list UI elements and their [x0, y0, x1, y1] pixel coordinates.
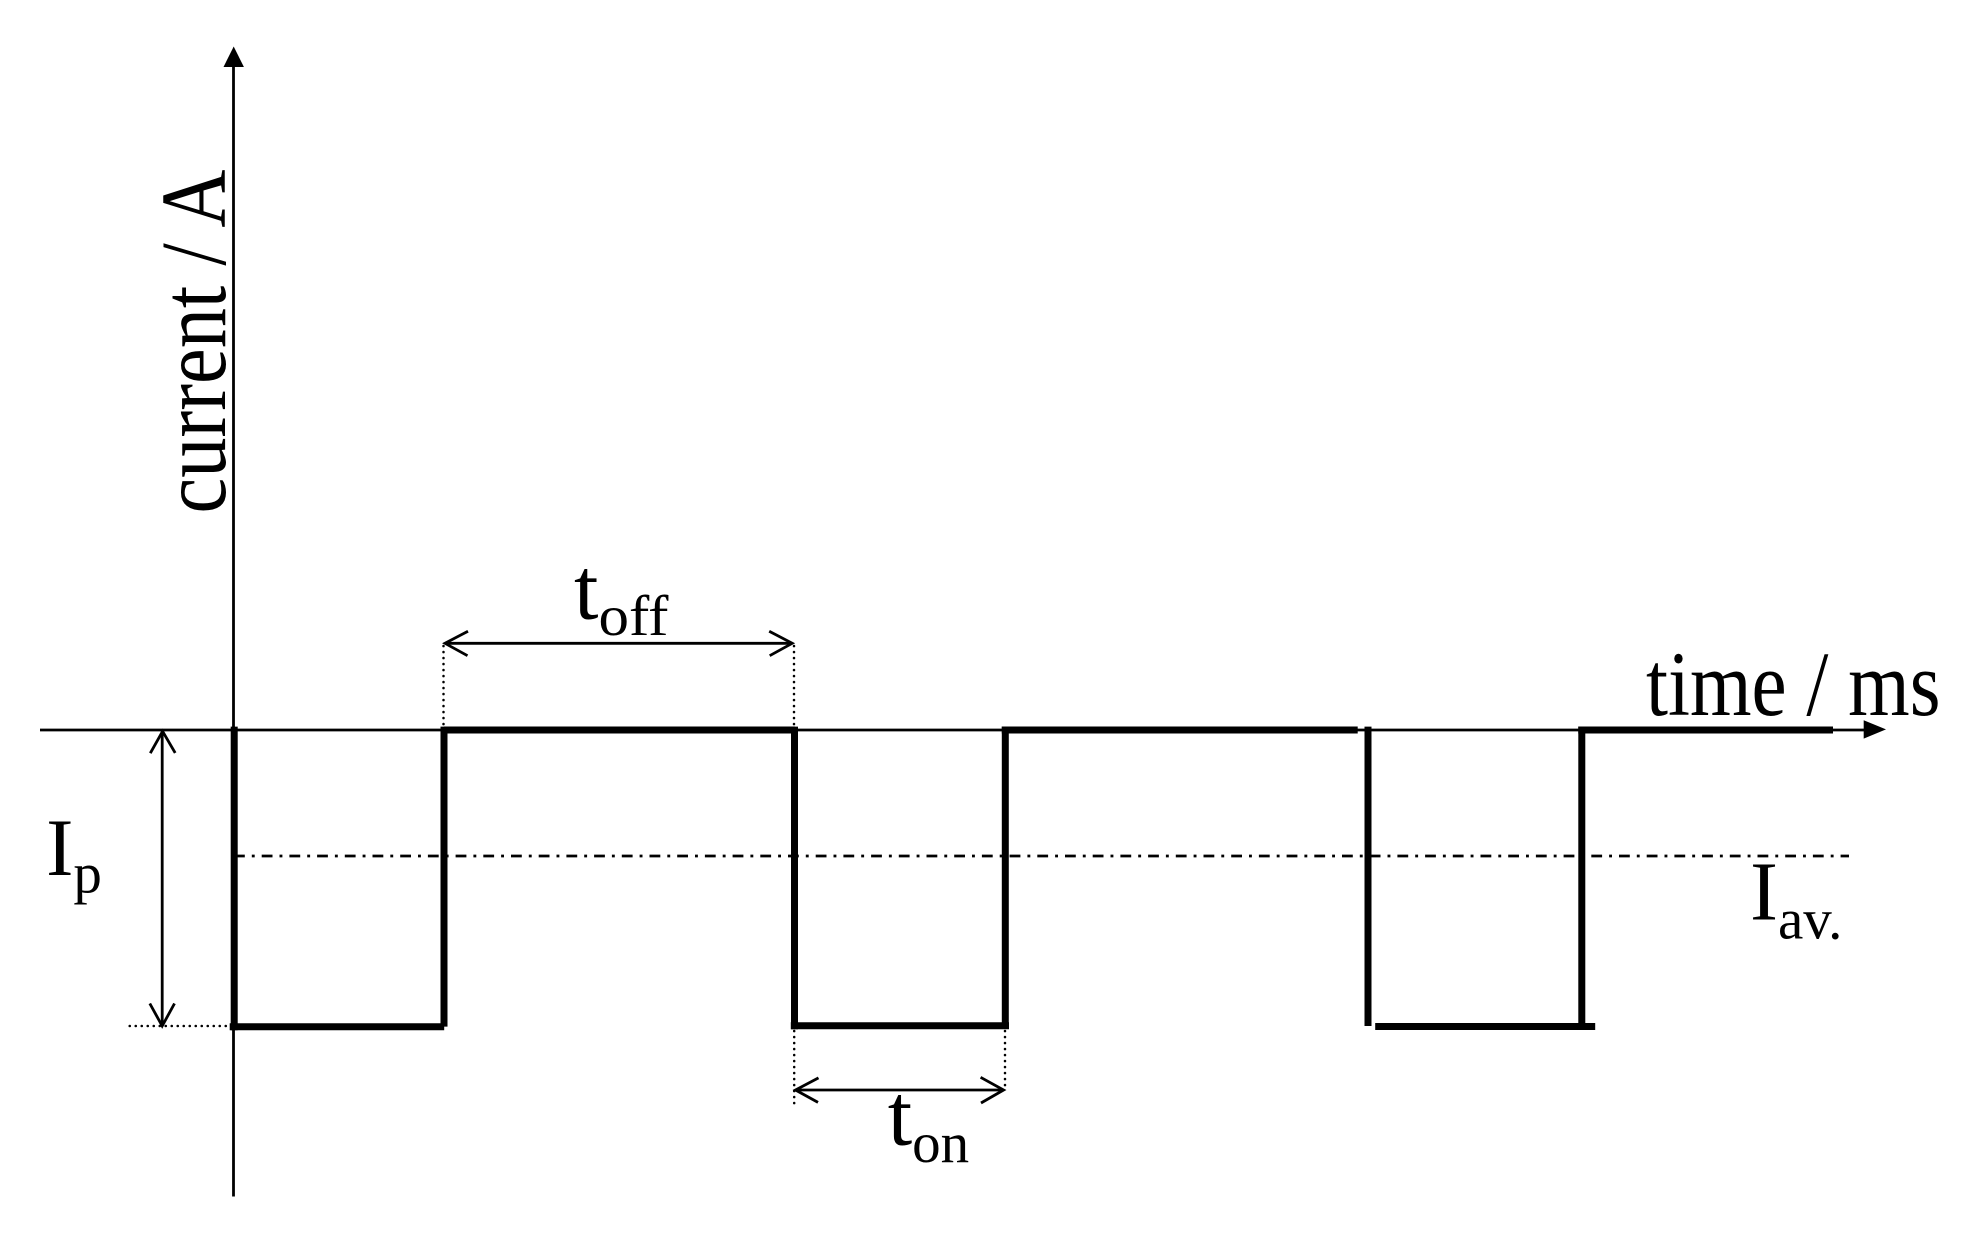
waveform pulse 1 rising edge	[441, 727, 448, 1027]
svg-text:ton: ton	[888, 1067, 969, 1175]
waveform pulse 3 bottom	[1375, 1023, 1595, 1030]
waveform pulse 3 rising edge	[1578, 727, 1585, 1030]
dotted horizontal I_p bottom reference	[130, 1025, 229, 1028]
svg-text:time / ms: time / ms	[1646, 633, 1941, 735]
dotted vertical t_off left	[442, 646, 445, 730]
dotted vertical t_on right	[1004, 1031, 1007, 1087]
dash-dot average-current line	[234, 855, 1849, 858]
waveform pulse 1 falling edge	[231, 727, 238, 1031]
svg-text:Iav.: Iav.	[1750, 846, 1842, 952]
t_off dimension arrow	[445, 631, 792, 656]
waveform zero segment 1	[444, 727, 795, 734]
waveform pulse 2 rising edge	[1002, 727, 1009, 1026]
waveform zero segment 2	[1002, 727, 1358, 734]
waveform pulse 2 bottom	[791, 1022, 1009, 1029]
waveform pulse 3 falling edge	[1365, 727, 1372, 1026]
dotted vertical t_on left	[793, 1031, 796, 1108]
x-axis arrowhead	[1864, 720, 1886, 738]
I_p dimension arrow	[150, 731, 175, 1026]
x-axis (zero line)	[40, 729, 1866, 732]
waveform pulse 2 falling edge	[791, 727, 798, 1030]
svg-text:current / A: current / A	[143, 170, 246, 514]
waveform pulse 1 bottom	[230, 1023, 445, 1030]
waveform zero segment 3	[1578, 727, 1833, 734]
svg-text:toff: toff	[574, 542, 668, 648]
y-axis	[232, 62, 235, 1197]
y-axis arrowhead	[224, 47, 244, 68]
svg-text:Ip: Ip	[46, 802, 102, 906]
t_on dimension arrow	[796, 1077, 1004, 1103]
dotted vertical t_off right	[793, 646, 796, 726]
